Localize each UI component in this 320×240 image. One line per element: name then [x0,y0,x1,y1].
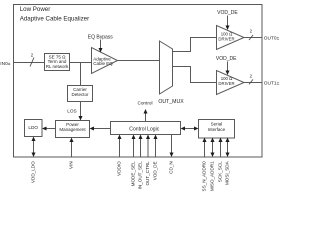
svg-text:SS_N_ADDR0: SS_N_ADDR0 [201,161,206,192]
outer frame [14,5,263,158]
arrowhead SCK up [219,138,223,143]
svg-text:LOS: LOS [67,109,76,114]
svg-text:OUT_CTRL: OUT_CTRL [145,161,150,186]
svg-text:Management: Management [59,127,86,132]
arrowhead VIN up [70,138,74,143]
control logic box [111,122,181,135]
svg-text:LDO: LDO [28,125,38,130]
svg-text:Cable EQ: Cable EQ [93,61,113,66]
arrowhead CD_N down [170,153,174,158]
svg-text:OUT1±: OUT1± [264,80,280,86]
arrowhead IN_OUT_SEL up [139,135,143,140]
svg-text:MOSI_SDA: MOSI_SDA [224,160,229,185]
wire pin MISO_ADDR1 [212,141,214,154]
slash IN 2 [30,58,34,67]
arrowhead MISO up [211,138,215,143]
power management box [56,121,90,138]
svg-text:IN_OUT_SEL: IN_OUT_SEL [137,161,142,190]
wire INs input [14,62,45,64]
svg-text:SCK_SCL: SCK_SCL [217,161,222,182]
op-amp driver1 triangle [217,26,245,50]
svg-text:OUT_MUX: OUT_MUX [158,99,184,105]
op-amp driver2 triangle [217,71,245,95]
wire CL to PM [94,128,111,130]
wire EQ to MUX [118,60,160,62]
arrowhead VOD_DE2 down [226,71,230,76]
wire VOD_DE arrow 2 [227,62,229,72]
wire pin MODE_SEL [133,138,135,157]
arrowhead CL to PM left [90,127,95,131]
arrowhead VOD_DE1 down [226,26,230,31]
wire pin VDDIO [119,138,121,157]
slash OUT1 [249,79,253,84]
wire PM to LDO [46,128,56,130]
svg-text:VDD_LDO: VDD_LDO [30,161,35,183]
svg-text:Interface: Interface [208,127,226,132]
arrowhead MOSI down [226,153,230,158]
arrowhead MODE_SEL up [132,135,136,140]
arrowhead CL-SI left [181,127,186,131]
svg-text:VOD_DE: VOD_DE [152,161,157,180]
wire pin MOSI_SDA [227,141,229,154]
wire OUT1 [244,82,262,84]
LDO box [25,120,43,137]
svg-text:Control: Control [137,101,152,106]
svg-text:OUT0±: OUT0± [264,36,280,42]
wire pin SS_N_ADDR0 [204,141,206,157]
wire junction drop to carrier detector [80,63,82,86]
mux OUT_MUX trapezoid [160,41,173,94]
svg-text:EQ Bypass: EQ Bypass [88,35,114,41]
arrowhead VDD_LDO down [32,153,36,158]
svg-text:CD_N: CD_N [168,161,173,174]
carrier detector box [68,86,93,102]
svg-text:Control Logic: Control Logic [129,126,159,132]
arrowhead VOD_DE up [154,135,158,140]
arrowhead LOS down into PM [79,116,83,121]
svg-text:RL network: RL network [46,64,69,69]
svg-text:Adaptive Cable Equalizer: Adaptive Cable Equalizer [20,16,89,23]
wire EQ bypass arrow line [100,40,102,49]
svg-text:DRIVER: DRIVER [218,81,234,86]
arrowhead OUT_CTRL up [146,135,150,140]
slash OUT0 [249,35,253,40]
arrowhead MOSI up [226,138,230,143]
arrowhead MISO down [211,153,215,158]
wire mux out1 to driver1 [173,38,217,52]
resistor network box SE 75 [45,54,70,71]
arrowhead VDDIO up [118,135,122,140]
wire control up from CL [145,113,147,122]
arrowhead SS_N up [203,138,207,143]
svg-text:Detector: Detector [71,92,89,97]
svg-text:Low Power: Low Power [20,6,51,13]
op-amp EQ triangle [92,48,118,74]
wire pin SCK_SCL [220,141,222,157]
wire CL to SI [184,128,195,130]
wire mux out2 to driver2 [173,67,217,83]
arrowhead EQ bypass down [99,48,103,53]
wire pin VOD_DE [155,138,157,157]
wire pin OUT_CTRL [147,138,149,157]
svg-text:DRIVER: DRIVER [218,37,234,42]
wire VOD_DE arrow 1 [227,16,229,27]
wire pin CD_N [171,135,173,154]
wire pin IN_OUT_SEL [140,138,142,157]
svg-text:IN0±: IN0± [0,61,10,67]
arrowhead VDD_LDO up [32,137,36,142]
wire SE75 to EQ [70,62,92,64]
svg-text:MISO_ADDR1: MISO_ADDR1 [209,161,214,191]
svg-text:VOD_DE: VOD_DE [217,10,238,16]
svg-text:VOD_DE: VOD_DE [216,56,237,62]
arrowhead PM to LDO left [42,127,47,131]
svg-text:VDDIO: VDDIO [116,161,121,176]
wire OUT0 [244,37,262,39]
arrowhead control up [144,109,148,114]
serial interface box [199,120,235,139]
wire pin VIN [71,141,73,157]
arrowhead CL-SI right [194,127,199,131]
wire LOS line [80,102,82,118]
svg-text:VIN: VIN [68,161,73,169]
wire pin VDD_LDO [33,140,35,154]
svg-text:Serial: Serial [211,122,223,127]
svg-text:MODE_SEL: MODE_SEL [130,161,135,186]
